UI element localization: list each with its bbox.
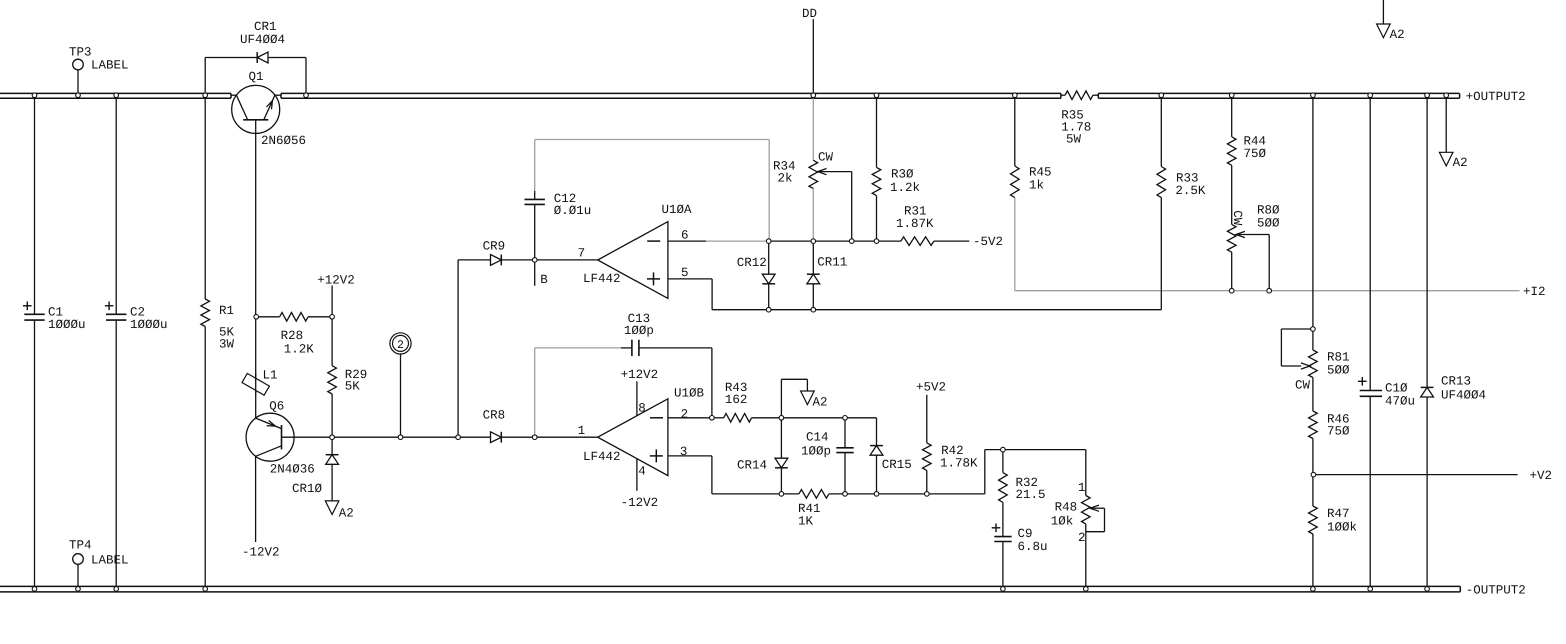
label CR8 (483, 409, 506, 423)
svg-text:R28: R28 (281, 329, 304, 343)
wire pin5 net (668, 279, 1161, 310)
svg-text:1ØØk: 1ØØk (1327, 520, 1357, 534)
label CW (R81) (1295, 378, 1311, 392)
svg-text:UF4ØØ4: UF4ØØ4 (240, 33, 285, 47)
label TP3 (69, 46, 92, 60)
svg-text:+OUTPUT2: +OUTPUT2 (1466, 90, 1526, 104)
resistor R33 (1157, 98, 1166, 310)
svg-text:1: 1 (578, 424, 586, 438)
svg-text:CR9: CR9 (483, 239, 506, 253)
wire node2 to base net (400, 354, 402, 437)
wire CR8 input (332, 436, 490, 438)
wire R43 node to A2 (781, 379, 807, 418)
svg-text:1.2k: 1.2k (890, 181, 920, 195)
test point TP4 (73, 554, 84, 587)
diode CR1 (205, 52, 306, 93)
resistor R44 (1227, 98, 1236, 165)
wire +V2 (1313, 474, 1517, 476)
svg-text:1Øk: 1Øk (1051, 514, 1074, 528)
svg-text:CR1Ø: CR1Ø (292, 482, 323, 496)
label Q6 2N4036 (270, 463, 315, 477)
svg-text:+I2: +I2 (1523, 285, 1546, 299)
wire bottom rail -OUTPUT2 (0, 586, 1460, 592)
svg-text:21.5: 21.5 (1016, 488, 1046, 502)
svg-text:7: 7 (578, 247, 586, 261)
junction dots (interior) (254, 239, 1316, 496)
capacitor C9 (992, 524, 1012, 587)
label Q1 (249, 70, 264, 84)
svg-text:B: B (540, 273, 548, 287)
net label +I2 (1523, 285, 1546, 299)
node B stub (534, 260, 536, 286)
test point TP3 (73, 59, 84, 93)
svg-text:1ØØØu: 1ØØØu (130, 318, 168, 332)
svg-text:A2: A2 (1453, 156, 1468, 170)
wire pin6 net (668, 240, 901, 242)
label R43 (725, 381, 748, 407)
label R35 (1061, 109, 1091, 147)
resistor R45 (1011, 98, 1020, 197)
svg-text:2.5K: 2.5K (1175, 184, 1206, 198)
wire pin1 U10B (535, 436, 598, 438)
label A2 (top) (1390, 28, 1405, 42)
svg-text:162: 162 (725, 393, 748, 407)
svg-text:1.2K: 1.2K (284, 343, 315, 357)
svg-text:75Ø: 75Ø (1327, 425, 1350, 439)
svg-text:2N4Ø36: 2N4Ø36 (270, 463, 315, 477)
pin 5 U10A (681, 266, 689, 280)
svg-text:5K: 5K (345, 379, 361, 393)
svg-text:-5V2: -5V2 (973, 235, 1003, 249)
wire pin2 net right (781, 418, 876, 446)
label CW (R80) (1230, 210, 1244, 226)
svg-text:+12V2: +12V2 (317, 274, 355, 288)
resistor R47 (1309, 475, 1318, 587)
label C13 (624, 312, 654, 338)
svg-text:75Ø: 75Ø (1244, 147, 1267, 161)
svg-text:2: 2 (1078, 531, 1086, 545)
resistor R32 (999, 450, 1008, 537)
potentiometer R48 (1082, 496, 1105, 587)
net label +5V2 (916, 380, 946, 394)
wire Q6 collector to -12V2 (255, 456, 257, 542)
label R31 (896, 204, 934, 231)
label A2 (CR10) (339, 506, 354, 520)
pin 2 U10B (681, 407, 689, 421)
svg-text:3: 3 (680, 445, 688, 459)
svg-text:R8Ø: R8Ø (1257, 204, 1280, 218)
svg-text:-12V2: -12V2 (242, 545, 280, 559)
wire pin3 net (668, 456, 799, 494)
label R81 (1327, 350, 1350, 377)
label R48 (1051, 501, 1077, 529)
svg-text:CR15: CR15 (882, 458, 912, 472)
label U10A LF442 (583, 272, 621, 286)
node 2 (circled) (390, 333, 411, 354)
svg-text:5ØØ: 5ØØ (1257, 217, 1280, 231)
svg-text:CW: CW (1230, 210, 1244, 226)
label CR14 (737, 458, 767, 472)
svg-text:LABEL: LABEL (91, 553, 129, 567)
svg-text:1K: 1K (798, 514, 814, 528)
svg-text:A2: A2 (813, 395, 828, 409)
transistor Q6 (246, 413, 332, 461)
label R34 (773, 159, 796, 185)
potentiometer R80 (1227, 224, 1269, 290)
label R32 (1016, 476, 1046, 502)
wire U10A out to node B (535, 259, 598, 261)
resistor R1 (201, 98, 210, 586)
wire C13 loop (gray part) (535, 348, 621, 437)
pin 8 U10B (638, 402, 646, 416)
ground A2 (U10B+) (801, 391, 815, 405)
svg-text:CR14: CR14 (737, 458, 767, 472)
net label -12V2 (Q6) (242, 545, 280, 559)
wire Q1 base down to Q6 (255, 317, 257, 418)
label B (540, 273, 548, 287)
ground A2 (top) (1377, 0, 1391, 38)
svg-text:CR12: CR12 (737, 256, 767, 270)
svg-text:CR1: CR1 (254, 20, 277, 34)
svg-text:R47: R47 (1327, 507, 1350, 521)
capacitor C10 (1358, 98, 1382, 586)
label CR11 (817, 255, 847, 269)
svg-text:+V2: +V2 (1530, 469, 1553, 483)
wire Q1 base to R28 node (256, 160, 280, 317)
label L1 (263, 368, 278, 382)
diode CR11 (807, 241, 820, 310)
label C9 (1018, 527, 1048, 554)
junction dots top rail (32, 93, 1448, 98)
ground A2 (rail) (1439, 98, 1453, 166)
svg-text:1.78K: 1.78K (940, 456, 978, 470)
label R30 (890, 167, 920, 195)
svg-text:2k: 2k (778, 172, 793, 186)
label TP4 LABEL (91, 553, 129, 567)
net label -5V2 (973, 235, 1003, 249)
diode CR8 (491, 432, 535, 443)
net label -12V2 (U10B) (621, 496, 659, 510)
label CR15 (882, 458, 912, 472)
svg-text:A2: A2 (339, 506, 354, 520)
svg-text:UF4ØØ4: UF4ØØ4 (1441, 388, 1486, 402)
wire R44 to R80 (1231, 165, 1233, 224)
wire top rail +OUTPUT2 (0, 93, 1460, 98)
diode CR9 (491, 255, 535, 266)
svg-text:U1ØB: U1ØB (674, 386, 705, 400)
svg-text:R81: R81 (1327, 350, 1350, 364)
wire rail to R34 (gray) (812, 98, 814, 160)
junction dots bottom rail (32, 587, 1429, 592)
wire R42 node to R48 (1003, 450, 1086, 496)
svg-text:2: 2 (397, 339, 404, 352)
resistor R41 (799, 490, 845, 499)
svg-text:4: 4 (638, 464, 646, 478)
label C14 (801, 430, 831, 458)
svg-text:Q6: Q6 (269, 400, 284, 414)
capacitor C2 (105, 98, 127, 586)
label Q6 (269, 400, 284, 414)
net label +12V2 (U10B) (621, 368, 659, 382)
wire pin4 supply (636, 459, 638, 491)
wire +I2 (gray) (1015, 198, 1520, 291)
capacitor C12 (525, 191, 545, 260)
svg-text:TP4: TP4 (69, 538, 92, 552)
svg-text:1ØØp: 1ØØp (801, 444, 831, 458)
label CR9 (483, 239, 506, 253)
svg-text:DD: DD (802, 7, 817, 21)
svg-text:47Øu: 47Øu (1385, 394, 1415, 408)
resistor R42 (923, 395, 932, 494)
wire gray feedback loop (C12) (535, 140, 770, 242)
pin 7 U10A (578, 247, 586, 261)
svg-text:R48: R48 (1055, 501, 1078, 515)
net label DD (802, 7, 817, 21)
label CR12 (737, 256, 767, 270)
net label +12V2 (R29) (317, 274, 355, 288)
svg-text:5ØØ: 5ØØ (1327, 363, 1350, 377)
label R46 (1327, 412, 1350, 438)
svg-text:6.8u: 6.8u (1018, 540, 1048, 554)
capacitor C14 (836, 418, 853, 494)
svg-text:L1: L1 (263, 368, 278, 382)
svg-text:LF442: LF442 (583, 450, 621, 464)
svg-text:+12V2: +12V2 (621, 368, 659, 382)
label R41 (798, 502, 821, 529)
diode CR10 (326, 437, 339, 501)
wire pin8 supply (636, 381, 638, 415)
svg-text:LABEL: LABEL (91, 59, 129, 73)
label CR10 (292, 482, 323, 496)
wire +12V2 stub (331, 286, 333, 317)
pin 1 R48 (1078, 481, 1086, 495)
svg-text:5W: 5W (1066, 133, 1082, 147)
resistor R35 (1061, 91, 1098, 100)
svg-text:C1Ø: C1Ø (1385, 381, 1408, 395)
op-amp U10B (598, 399, 668, 476)
pin 6 U10A (681, 228, 689, 242)
svg-text:CR13: CR13 (1441, 374, 1471, 388)
svg-text:1k: 1k (1029, 178, 1044, 192)
label A2 (U10B+) (813, 395, 828, 409)
svg-text:1.87K: 1.87K (896, 217, 934, 231)
label CW (R34) (818, 150, 834, 164)
svg-text:Ø.Ø1u: Ø.Ø1u (554, 204, 592, 218)
svg-text:LF442: LF442 (583, 272, 621, 286)
svg-text:C14: C14 (806, 430, 829, 444)
svg-text:2: 2 (681, 407, 689, 421)
pin 1 U10B (578, 424, 586, 438)
svg-text:-OUTPUT2: -OUTPUT2 (1466, 583, 1526, 597)
svg-text:-12V2: -12V2 (621, 496, 659, 510)
label Q1 2N6056 (261, 134, 306, 148)
label U10B (674, 386, 705, 400)
wire CR9 corner (458, 260, 490, 437)
net label -OUTPUT2 (1466, 583, 1526, 597)
resistor R43 (724, 414, 782, 423)
capacitor C1 (23, 98, 45, 586)
capacitor C13 (621, 340, 712, 418)
diode CR15 (870, 446, 883, 494)
svg-text:Q1: Q1 (249, 70, 264, 84)
svg-text:6: 6 (681, 228, 689, 242)
label CR13 (1441, 374, 1486, 402)
svg-text:CW: CW (818, 150, 834, 164)
wire rail to R81 (1312, 98, 1314, 350)
label U10A (662, 203, 693, 217)
label C1 (48, 305, 86, 332)
net label +V2 (1530, 469, 1553, 483)
pin 2 R48 (1078, 531, 1086, 545)
pin 4 U10B (638, 464, 646, 478)
diode CR13 (1421, 98, 1434, 586)
wire pin3 net right (845, 450, 1003, 494)
transistor Q1 (231, 85, 281, 160)
svg-text:U1ØA: U1ØA (662, 203, 693, 217)
label C2 (130, 305, 168, 332)
resistor R31 (901, 237, 970, 246)
svg-text:A2: A2 (1390, 28, 1405, 42)
inductor L1 (242, 373, 269, 395)
label R1 (219, 304, 235, 351)
label R29 (345, 368, 368, 393)
diode CR14 (775, 418, 788, 494)
wire pin2 net (668, 417, 724, 419)
svg-text:8: 8 (638, 402, 646, 416)
diode CR12 (762, 241, 775, 310)
svg-text:+5V2: +5V2 (916, 380, 946, 394)
label R28 (281, 329, 315, 357)
ground A2 (CR10) (325, 501, 339, 515)
svg-text:R3Ø: R3Ø (891, 167, 914, 181)
resistor R29 (328, 317, 337, 437)
label R47 (1327, 507, 1357, 535)
label TP3 LABEL (91, 59, 129, 73)
svg-text:2N6Ø56: 2N6Ø56 (261, 134, 306, 148)
svg-text:1ØØp: 1ØØp (624, 324, 654, 338)
svg-text:CR8: CR8 (483, 409, 506, 423)
potentiometer R34 (809, 160, 852, 241)
label U10B LF442 (583, 450, 621, 464)
label R44 (1244, 135, 1267, 161)
label R80 (1257, 204, 1280, 231)
label CR1 (240, 20, 285, 47)
label R33 (1175, 171, 1206, 198)
label C10 (1385, 381, 1415, 408)
svg-text:CR11: CR11 (817, 255, 847, 269)
svg-text:3W: 3W (219, 337, 235, 351)
wire DD to rail (812, 19, 814, 93)
potentiometer R81 (1281, 329, 1317, 378)
label C12 (554, 192, 592, 218)
resistor R28 (280, 313, 333, 322)
op-amp U10A (598, 222, 668, 299)
label A2 (rail) (1453, 156, 1468, 170)
svg-text:1ØØØu: 1ØØØu (48, 318, 86, 332)
svg-text:1: 1 (1078, 481, 1086, 495)
svg-text:CW: CW (1295, 378, 1311, 392)
resistor R30 (872, 98, 881, 241)
svg-text:C9: C9 (1018, 527, 1033, 541)
label TP4 (69, 538, 92, 552)
label R45 (1029, 165, 1052, 192)
net label +OUTPUT2 (1466, 90, 1526, 104)
resistor R46 (1309, 378, 1318, 475)
pin 3 U10B (680, 445, 688, 459)
svg-text:5: 5 (681, 266, 689, 280)
label R42 (940, 444, 978, 471)
svg-text:TP3: TP3 (69, 46, 92, 60)
svg-text:R45: R45 (1029, 165, 1052, 179)
svg-text:R33: R33 (1176, 171, 1199, 185)
svg-text:R1: R1 (219, 304, 234, 318)
